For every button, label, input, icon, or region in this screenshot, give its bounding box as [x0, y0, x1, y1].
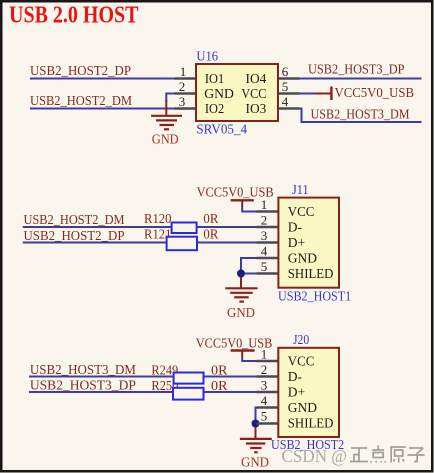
power bar VCC5V0_USB (J11)	[231, 199, 254, 201]
wire USB2_HOST2_DM to pin3	[30, 108, 175, 110]
svg-text:D-: D-	[288, 369, 303, 384]
ground stem J11	[240, 277, 242, 289]
watermark hanzi 点	[371, 446, 385, 463]
ground symbol J20	[240, 439, 272, 452]
svg-text:USB2_HOST3_DP: USB2_HOST3_DP	[30, 377, 136, 392]
svg-text:2: 2	[261, 362, 268, 377]
svg-text:SHILED: SHILED	[288, 266, 334, 281]
svg-text:5: 5	[261, 409, 268, 424]
connector body J11	[278, 198, 339, 288]
svg-text:VCC: VCC	[288, 204, 315, 219]
svg-text:IO4: IO4	[246, 71, 267, 86]
ground stem U16	[165, 100, 167, 116]
svg-text:0R: 0R	[211, 378, 228, 393]
svg-text:USB2_HOST3_DM: USB2_HOST3_DM	[30, 362, 136, 377]
resistor R250 body	[173, 388, 204, 400]
svg-text:1: 1	[180, 64, 187, 79]
watermark hanzi 正	[350, 448, 368, 462]
pin stubs J11	[257, 212, 279, 274]
svg-text:CSDN @: CSDN @	[282, 446, 348, 466]
svg-text:J20: J20	[293, 332, 309, 347]
svg-text:6: 6	[282, 64, 289, 79]
wire DP left of R121	[23, 242, 167, 244]
svg-text:USB2_HOST3_DM: USB2_HOST3_DM	[311, 106, 410, 121]
svg-text:USB 2.0 HOST: USB 2.0 HOST	[9, 2, 139, 28]
pin 6 stub U16	[278, 77, 300, 79]
svg-text:USB2_HOST2_DM: USB2_HOST2_DM	[30, 93, 132, 108]
wire pin4 USB2_HOST3_DM	[299, 109, 422, 123]
svg-text:0R: 0R	[203, 211, 218, 226]
wire USB2_HOST2_DP to pin1	[30, 78, 175, 80]
pin stubs J20	[257, 361, 279, 424]
wire DM left of R120	[23, 226, 172, 228]
wire pin5 J11 to junction	[241, 273, 257, 275]
power bar VCC5V0_USB (U16)	[316, 93, 331, 95]
svg-text:USB2_HOST3_DP: USB2_HOST3_DP	[308, 62, 405, 77]
svg-text:5: 5	[282, 79, 289, 94]
watermark hanzi 原	[390, 447, 406, 463]
svg-text:3: 3	[261, 228, 268, 243]
svg-text:GND: GND	[288, 400, 317, 415]
svg-text:VCC: VCC	[241, 86, 266, 101]
svg-text:GND: GND	[288, 251, 317, 266]
svg-text:IO3: IO3	[246, 101, 267, 116]
svg-text:0R: 0R	[211, 363, 228, 378]
svg-text:D-: D-	[288, 220, 303, 235]
watermark hanzi 子	[408, 448, 425, 462]
svg-text:VCC: VCC	[288, 354, 315, 369]
svg-text:SRV05_4: SRV05_4	[196, 122, 247, 137]
svg-text:GND: GND	[152, 132, 179, 147]
svg-text:2: 2	[179, 79, 186, 94]
svg-text:GND: GND	[204, 86, 234, 101]
svg-text:U16: U16	[196, 48, 218, 63]
pin 4 stub U16	[278, 107, 300, 109]
junction dot J11	[237, 270, 245, 278]
ground symbol U16	[151, 116, 182, 130]
pin 2 stub U16	[175, 92, 197, 94]
svg-text:1: 1	[261, 347, 268, 362]
svg-text:D+: D+	[288, 235, 305, 250]
ground symbol J11	[225, 288, 257, 301]
wire power to pin1 J11	[242, 206, 256, 212]
svg-text:USB2_HOST2_DP: USB2_HOST2_DP	[24, 228, 125, 243]
wire power to pin1 J20	[242, 356, 256, 361]
resistor R121 body	[167, 237, 197, 251]
svg-text:4: 4	[261, 244, 268, 259]
svg-text:2: 2	[261, 213, 268, 228]
svg-text:USB2_HOST1: USB2_HOST1	[278, 289, 351, 304]
ground stem J20	[255, 427, 257, 439]
svg-text:SHILED: SHILED	[288, 416, 334, 431]
power bar VCC5V0_USB (J20)	[231, 349, 255, 351]
wire DP right of R121	[197, 242, 257, 244]
wire DP right of R250	[204, 391, 257, 393]
svg-text:VCC5V0_USB: VCC5V0_USB	[335, 85, 415, 100]
svg-text:J11: J11	[292, 182, 309, 197]
svg-text:IO2: IO2	[205, 101, 224, 116]
wire pin5 to power	[300, 93, 316, 95]
wire pin4 J20 to junction	[256, 408, 257, 424]
svg-text:R120: R120	[144, 211, 172, 226]
wire DM left of R249	[29, 376, 174, 378]
wire DP left of R250	[29, 391, 173, 393]
component body U16	[196, 64, 278, 121]
svg-text:IO1: IO1	[205, 71, 224, 86]
svg-text:USB2_HOST2_DP: USB2_HOST2_DP	[30, 63, 131, 78]
resistor R249 body	[174, 373, 204, 384]
svg-text:USB2_HOST2_DM: USB2_HOST2_DM	[24, 212, 125, 227]
pin 5 stub U16	[278, 92, 300, 94]
svg-text:4: 4	[282, 94, 289, 109]
wire DM right of R120	[197, 226, 257, 228]
resistor R120 body	[172, 223, 197, 234]
junction dot J20	[252, 420, 260, 428]
pin 3 stub U16	[175, 107, 197, 109]
svg-text:4: 4	[261, 393, 268, 408]
svg-text:3: 3	[179, 94, 186, 109]
svg-text:GND: GND	[241, 455, 269, 470]
wire pin2 to ground	[166, 94, 175, 102]
svg-text:D+: D+	[288, 385, 305, 400]
svg-text:GND: GND	[227, 305, 255, 320]
wire DM right of R249	[204, 376, 257, 378]
svg-text:0R: 0R	[203, 227, 218, 242]
svg-text:3: 3	[261, 378, 268, 393]
wire pin4 J11 to junction	[241, 258, 257, 274]
svg-text:5: 5	[261, 259, 268, 274]
wire pin5 J20 to junction	[256, 423, 257, 425]
svg-text:1: 1	[261, 197, 268, 212]
wire pin6 USB2_HOST3_DP	[300, 78, 422, 80]
pin 1 stub U16	[175, 77, 197, 79]
connector body J20	[278, 348, 339, 437]
